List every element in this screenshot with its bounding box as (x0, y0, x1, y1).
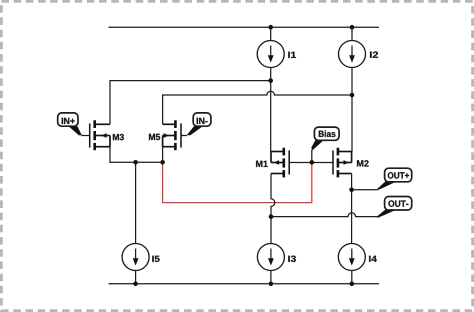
label M3 (113, 134, 124, 140)
label I4 (369, 256, 377, 262)
node bottom rail / I3 (269, 282, 274, 287)
node M3 drain / I1 (268, 78, 273, 83)
current source I4 (338, 244, 365, 271)
wire M3 source to common tail node (110, 147, 163, 163)
bulk-source tie M3 (109, 136, 111, 147)
node bottom rail / I5 (133, 282, 138, 287)
label I3 (288, 256, 296, 262)
node Bias / gates (310, 160, 315, 165)
wire tail node to I5 (135, 162, 137, 243)
label I5 (152, 256, 159, 262)
wire OUT+ net from M2 drain node (352, 189, 378, 191)
wire M2 drain down to I4 (351, 174, 353, 244)
red highlighted net: M5 source node to Bias / cascode gate node (163, 163, 312, 203)
node tail / I5 (133, 160, 138, 165)
wire IN+ to M3 gate (81, 135, 90, 137)
label I2 (370, 52, 378, 58)
wire OUT- net to I3 node (hops over M2 line) (271, 213, 377, 217)
transistor M2 (332, 148, 351, 178)
wire I3 bottom stem (270, 270, 272, 284)
current source I2 (339, 41, 366, 68)
node top rail / I2 (350, 25, 355, 30)
label M1 (256, 161, 268, 167)
node M2 drain / OUT+ (349, 188, 354, 193)
node M5 drain / I2 (350, 93, 355, 98)
wire M1 M2 common gate (289, 162, 333, 164)
node M5 source / red net (160, 160, 165, 165)
wire I2 top stem (351, 27, 353, 40)
wire top supply rail (109, 26, 380, 28)
current source I5 (122, 244, 149, 271)
net label OUT- (378, 197, 412, 219)
transistor M3 (89, 120, 110, 150)
wire I5 bottom stem (135, 270, 137, 283)
node M1 drain / OUT- / I3 (269, 214, 274, 219)
label M5 (149, 134, 160, 140)
bulk-source tie M5 (162, 136, 164, 147)
current source I3 (257, 244, 284, 271)
label I1 (288, 52, 296, 58)
wire I2 bottom to M2 source pin (351, 68, 353, 152)
label M2 (357, 160, 369, 166)
transistor M5 (163, 120, 182, 150)
wire I4 bottom stem (351, 270, 353, 284)
current source I1 (257, 41, 284, 68)
wire M1 drain down to I3 (hops over red net) (271, 174, 275, 244)
net label Bias (311, 127, 339, 150)
wire Bias stem (311, 150, 313, 163)
transistor M1 (271, 148, 290, 178)
net label IN+ (58, 113, 82, 135)
net label OUT+ (378, 168, 412, 190)
wire M3 drain to I1 node (110, 81, 271, 125)
wire I1 bottom to M1 source pin (270, 68, 272, 152)
wire IN- to M5 gate (181, 135, 187, 137)
node top rail / I1 (268, 25, 273, 30)
node bottom rail / I4 (350, 282, 355, 287)
wire bottom supply rail (109, 283, 380, 285)
wire M5 drain to I2 node (hops over I1 line) (163, 91, 352, 124)
wire I1 top stem (270, 27, 272, 40)
net label IN- (187, 113, 211, 135)
